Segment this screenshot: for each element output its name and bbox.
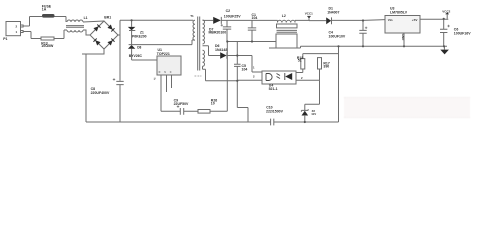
svg-text:P1: P1 — [3, 37, 7, 41]
svg-text:TOP221: TOP221 — [157, 52, 170, 56]
svg-text:+5V: +5V — [412, 18, 419, 22]
svg-text:MBR20100: MBR20100 — [209, 31, 227, 35]
svg-text:1N4007: 1N4007 — [327, 10, 339, 14]
svg-text:C2: C2 — [226, 9, 231, 13]
svg-text:C: C — [170, 71, 172, 74]
svg-text:VCC1: VCC1 — [305, 12, 313, 16]
svg-text:BYV26C: BYV26C — [129, 54, 143, 58]
svg-text:L2: L2 — [282, 14, 286, 18]
svg-text:100UF25V: 100UF25V — [224, 14, 241, 18]
svg-text:10: 10 — [211, 102, 215, 106]
svg-text:100UF16V: 100UF16V — [454, 32, 471, 36]
svg-text:VCC2: VCC2 — [442, 10, 450, 14]
svg-text:2: 2 — [301, 76, 303, 80]
svg-text:222/1500V: 222/1500V — [266, 109, 284, 113]
svg-text:2: 2 — [253, 74, 255, 78]
svg-text:104: 104 — [242, 68, 248, 72]
svg-text:390: 390 — [323, 65, 329, 69]
svg-text:D: D — [159, 71, 161, 74]
svg-text:LM7805LV: LM7805LV — [390, 11, 408, 15]
svg-text:104: 104 — [252, 16, 258, 20]
svg-text:P6KE200: P6KE200 — [132, 35, 147, 39]
svg-text:T1: T1 — [190, 14, 194, 18]
svg-text:100UF10V: 100UF10V — [329, 34, 346, 38]
svg-text:11V: 11V — [311, 112, 316, 116]
svg-text:1N4148: 1N4148 — [215, 48, 227, 52]
svg-text:220UF400V: 220UF400V — [91, 91, 110, 95]
svg-text:51: 51 — [298, 59, 302, 63]
svg-text:BR1: BR1 — [104, 15, 111, 19]
svg-text:10Ω5W: 10Ω5W — [41, 44, 54, 48]
svg-text:521-1: 521-1 — [269, 87, 278, 91]
svg-text:Vin: Vin — [388, 18, 393, 22]
svg-text:GND: GND — [401, 34, 405, 42]
svg-text:22UF50V: 22UF50V — [174, 102, 189, 106]
svg-text:1A: 1A — [42, 7, 47, 11]
svg-text:D8: D8 — [137, 45, 141, 49]
svg-text:1: 1 — [253, 65, 255, 69]
svg-text:L1: L1 — [84, 16, 88, 20]
